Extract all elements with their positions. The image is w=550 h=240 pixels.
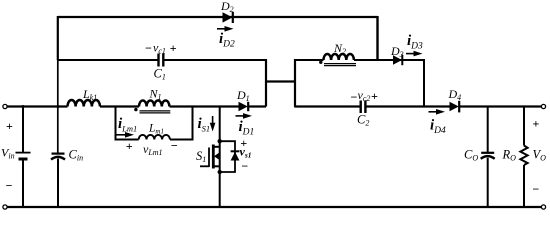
svg-text:iD4: iD4	[430, 118, 446, 137]
svg-text:−: −	[5, 179, 12, 193]
svg-text:−: −	[241, 159, 248, 173]
diode D3	[393, 55, 402, 65]
diode D4	[450, 101, 460, 113]
svg-text:iLm1: iLm1	[118, 116, 137, 134]
svg-text:N2: N2	[333, 41, 346, 56]
wire N2 line left	[295, 59, 324, 61]
wire top-left vertical	[57, 16, 59, 60]
terminal input bottom	[3, 205, 7, 209]
inductor N1	[139, 101, 169, 107]
junction dot S1 top	[218, 139, 222, 143]
wire main rail segment 3	[170, 105, 239, 107]
wire Ro branch lower	[523, 165, 525, 208]
svg-text:C2: C2	[357, 113, 369, 128]
wire jog node A to node B	[266, 80, 295, 82]
current arrow iD2	[217, 26, 234, 32]
wire top rail	[58, 16, 378, 18]
svg-text:D1: D1	[236, 88, 250, 103]
svg-text:+: +	[126, 139, 133, 153]
inductor Lk1	[68, 100, 100, 107]
junction dot Cin-rail	[57, 105, 60, 108]
wire body diode branch	[220, 141, 235, 172]
svg-text:vc2: vc2	[358, 88, 371, 103]
svg-text:−: −	[171, 138, 178, 152]
junction dot Vin-rail	[22, 105, 25, 108]
terminal input top	[3, 104, 7, 108]
wire vertical node A (C1 right to rail)	[265, 59, 267, 107]
wire main rail right segment 2	[366, 105, 450, 107]
polarity dot N2	[319, 61, 322, 64]
wire main rail segment 2	[100, 105, 139, 107]
wire Ro branch upper	[523, 106, 525, 146]
svg-text:+: +	[170, 41, 177, 55]
svg-text:iD2: iD2	[219, 31, 235, 50]
wire main rail segment 1	[7, 105, 68, 107]
wire Vin branch lower	[22, 160, 24, 208]
wire C1 line left	[58, 59, 158, 61]
wire main rail right segment 1	[294, 105, 359, 107]
diode D1	[239, 102, 249, 111]
capacitor C2	[361, 101, 366, 114]
capacitor Cin	[51, 154, 65, 160]
inductor N2	[324, 54, 354, 60]
svg-text:+: +	[532, 116, 539, 130]
svg-text:D4: D4	[448, 87, 462, 102]
transistor S1	[200, 145, 220, 169]
svg-text:CO: CO	[464, 148, 478, 163]
svg-text:vLm1: vLm1	[143, 142, 163, 157]
current arrow iS1	[210, 116, 216, 132]
wire main rail right segment 3	[460, 105, 544, 107]
svg-text:RO: RO	[502, 148, 517, 163]
wire S1 branch	[219, 107, 221, 209]
wire Vin branch upper	[22, 106, 24, 153]
wire Cin branch lower	[57, 159, 59, 209]
svg-text:N1: N1	[149, 87, 162, 102]
capacitor Co	[481, 153, 495, 159]
svg-text:−: −	[532, 182, 539, 196]
wire vertical node B (N2 left to rail)	[294, 59, 296, 107]
core lines N2	[324, 64, 356, 66]
svg-text:+: +	[371, 89, 378, 103]
svg-text:VO: VO	[533, 148, 547, 163]
wire bottom rail	[7, 206, 544, 208]
capacitor C1	[159, 54, 164, 67]
svg-text:D2: D2	[220, 0, 234, 14]
current arrow iD4	[429, 109, 446, 115]
current arrow iD3	[406, 51, 423, 57]
polarity dot N1	[134, 108, 137, 111]
body diode of S1	[231, 151, 240, 160]
svg-text:−: −	[350, 90, 357, 104]
wire main rail segment 4	[249, 105, 266, 107]
battery Vin	[16, 153, 31, 159]
svg-text:Vin: Vin	[1, 146, 15, 161]
svg-text:Lm1: Lm1	[148, 123, 164, 136]
terminal output top	[541, 104, 545, 108]
wire Co branch upper	[487, 106, 489, 153]
svg-text:iS1: iS1	[198, 116, 211, 134]
svg-text:vc1: vc1	[153, 41, 166, 56]
wire N2 line right	[354, 59, 424, 61]
svg-text:Lk1: Lk1	[82, 87, 97, 102]
svg-text:iD3: iD3	[407, 33, 423, 52]
svg-text:iD1: iD1	[239, 119, 255, 138]
terminal output bottom	[541, 205, 545, 209]
inductor Lm1	[139, 135, 170, 140]
wire D3 vertical down	[423, 59, 425, 107]
junction dot S1 bottom	[218, 170, 222, 174]
svg-text:+: +	[6, 119, 13, 133]
svg-text:S1: S1	[196, 149, 206, 164]
current arrow iD1	[236, 113, 253, 119]
svg-text:C1: C1	[154, 67, 166, 82]
wire Lm1 box	[116, 106, 193, 140]
current arrow iLm1	[117, 132, 135, 138]
wire Co branch lower	[487, 158, 489, 208]
svg-text:Cin: Cin	[69, 148, 84, 163]
svg-text:D3: D3	[390, 44, 404, 59]
diode D2	[223, 12, 233, 23]
svg-text:−: −	[145, 41, 152, 55]
wire Cin branch upper	[57, 59, 59, 153]
wire top-right vertical	[376, 16, 378, 60]
wire C1 line right	[164, 59, 267, 61]
core lines N1	[140, 111, 171, 113]
resistor Ro	[520, 146, 527, 166]
